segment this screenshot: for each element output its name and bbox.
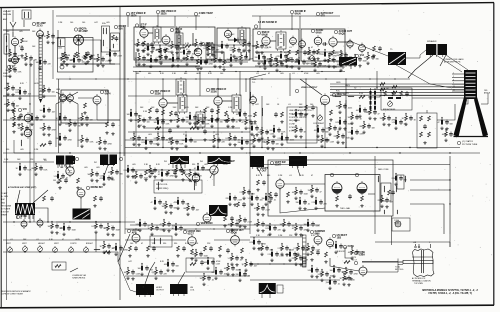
- svg-text:680: 680: [253, 46, 256, 48]
- ground: [176, 254, 179, 257]
- component cluster: [304, 219, 321, 232]
- coil L8 peaking: [245, 52, 248, 58]
- component cluster: [142, 137, 159, 150]
- damper tube V29: [310, 230, 325, 246]
- tube V33: [37, 218, 43, 228]
- bus wire: [252, 15, 340, 17]
- svg-text:4 POSITION UHF STRIP (OPT): 4 POSITION UHF STRIP (OPT): [8, 186, 37, 189]
- capacitor C78: [230, 216, 234, 221]
- vertical wire: [345, 79, 347, 147]
- ground: [316, 57, 319, 60]
- svg-text:6CS7: 6CS7: [223, 162, 230, 165]
- contrast pot R52: [313, 114, 325, 125]
- antenna terminal: [3, 18, 16, 32]
- component cluster: [16, 163, 33, 176]
- component cluster: [56, 133, 73, 146]
- svg-text:.0015: .0015: [314, 130, 319, 132]
- component cluster: [210, 135, 226, 148]
- resistor R44: [217, 109, 220, 114]
- volume pot R22: [306, 54, 315, 65]
- sound wire level: [255, 65, 343, 67]
- component cluster: [174, 197, 191, 210]
- svg-text:1.2M: 1.2M: [216, 264, 221, 266]
- component cluster: [135, 53, 151, 66]
- component cluster: [308, 265, 325, 278]
- ratio det diodes: [290, 36, 297, 47]
- wire: [261, 96, 263, 148]
- svg-text:VHF ANT: VHF ANT: [3, 10, 12, 13]
- leader line: [180, 164, 218, 182]
- model text: [422, 289, 478, 292]
- junction dots: [264, 65, 341, 66]
- note text left: [1, 290, 32, 296]
- transformer blob A: [56, 156, 73, 167]
- svg-text:COPR. BY JOHN F. RIDER: COPR. BY JOHN F. RIDER: [1, 294, 24, 296]
- horiz AFC tube V26: [127, 229, 140, 244]
- resistor R61: [392, 91, 395, 96]
- svg-text:150K: 150K: [380, 118, 385, 120]
- IF transformer T3: [206, 42, 214, 61]
- resistor R76: [167, 170, 170, 175]
- capacitor C64: [423, 124, 427, 129]
- yoke labels: [378, 169, 400, 225]
- svg-text:7: 7: [453, 83, 454, 85]
- svg-text:.0015: .0015: [442, 134, 447, 136]
- svg-text:FINE: FINE: [3, 73, 8, 75]
- horiz osc tube V27: [183, 230, 201, 247]
- svg-text:.005: .005: [84, 167, 88, 169]
- svg-text:PICTURE TUBE: PICTURE TUBE: [462, 144, 478, 146]
- resistor R54: [281, 112, 284, 117]
- svg-text:.047: .047: [144, 48, 148, 50]
- crt lead labels: [336, 82, 356, 95]
- component cluster: [248, 123, 263, 136]
- svg-text:470K: 470K: [170, 176, 175, 178]
- resistor R81: [269, 192, 272, 197]
- ground: [164, 56, 167, 59]
- ground: [161, 118, 164, 121]
- waveform photo W3: [170, 156, 189, 164]
- component cluster: [130, 133, 145, 146]
- 3rd video IF tube V18: [206, 88, 227, 107]
- svg-text:2.2M: 2.2M: [238, 200, 243, 202]
- svg-text:150K: 150K: [264, 142, 269, 144]
- component cluster: [356, 105, 372, 118]
- svg-text:1.2M: 1.2M: [94, 59, 99, 61]
- svg-text:.047: .047: [337, 64, 341, 66]
- component cluster: [144, 43, 160, 56]
- svg-text:W1: W1: [44, 160, 47, 162]
- ground: [224, 119, 227, 122]
- capacitor C28: [378, 46, 382, 51]
- svg-text:47: 47: [311, 175, 313, 177]
- tube V14: [93, 90, 111, 106]
- svg-text:1.2M: 1.2M: [392, 122, 397, 124]
- svg-text:10: 10: [453, 86, 455, 88]
- component cluster: [292, 125, 307, 138]
- wire: [80, 197, 82, 209]
- sound IF amp tube V9: [257, 31, 270, 47]
- junction dots: [257, 263, 296, 264]
- ground: [218, 254, 221, 257]
- switch box 1: [102, 22, 110, 52]
- svg-text:330: 330: [220, 122, 223, 124]
- svg-text:.0015: .0015: [348, 252, 353, 254]
- svg-text:.005: .005: [132, 176, 136, 178]
- svg-text:100: 100: [348, 117, 351, 119]
- svg-text:.047: .047: [364, 57, 368, 59]
- svg-text:330: 330: [22, 120, 25, 122]
- svg-text:330: 330: [184, 230, 187, 232]
- svg-text:2.2M: 2.2M: [124, 170, 129, 172]
- component cluster: [204, 257, 221, 270]
- svg-text:4.5 MC SOUND IF: 4.5 MC SOUND IF: [258, 21, 278, 24]
- component cluster: [268, 249, 285, 262]
- junction dots: [139, 71, 340, 72]
- component cluster: [136, 219, 150, 232]
- labels horiz: [128, 261, 221, 263]
- svg-text:330: 330: [163, 243, 166, 245]
- svg-text:.0015: .0015: [254, 208, 259, 210]
- svg-text:SPEAKER: SPEAKER: [427, 40, 437, 43]
- svg-text:(C) 21ATP4: (C) 21ATP4: [462, 140, 474, 143]
- svg-text:1.2M: 1.2M: [22, 58, 27, 60]
- resistor R78: [224, 216, 227, 221]
- ground: [268, 200, 271, 203]
- capacitor C1: [20, 46, 24, 51]
- capacitor C30: [19, 113, 23, 118]
- svg-text:B BOOST: B BOOST: [1, 212, 10, 214]
- vert section outline: [268, 160, 393, 216]
- svg-text:OSC: OSC: [13, 60, 18, 63]
- component cluster: [380, 113, 397, 126]
- CRT label: [457, 140, 478, 146]
- svg-text:680: 680: [136, 73, 139, 75]
- svg-text:CONTR: CONTR: [70, 243, 77, 245]
- svg-text:47: 47: [242, 122, 244, 124]
- lead label: [395, 266, 404, 271]
- vert tube shading: [332, 189, 367, 194]
- component cluster: [218, 41, 235, 54]
- capacitor C32: [48, 140, 52, 145]
- svg-text:OUTPUT: OUTPUT: [156, 290, 165, 292]
- svg-text:150K: 150K: [304, 194, 309, 196]
- notes text: [289, 109, 312, 132]
- component cluster: [36, 57, 52, 70]
- svg-text:1.2M: 1.2M: [330, 142, 335, 144]
- svg-text:.005: .005: [204, 164, 208, 166]
- bus wire: [125, 239, 186, 241]
- HV rect tube V30: [326, 234, 347, 249]
- ground: [360, 204, 363, 207]
- svg-text:OSC: OSC: [12, 67, 17, 70]
- label AGC: [138, 124, 143, 127]
- component cluster: [168, 137, 185, 150]
- yoke plug circle: [395, 221, 401, 227]
- svg-text:680: 680: [32, 168, 35, 170]
- component cluster: [186, 112, 203, 125]
- wire: [3, 239, 120, 241]
- ground: [287, 58, 290, 61]
- vertical wire: [249, 156, 251, 234]
- bus wire: [56, 15, 200, 17]
- svg-text:47: 47: [311, 47, 313, 49]
- capacitor C46: [168, 128, 172, 133]
- vertical wire: [305, 79, 307, 147]
- ground: [150, 50, 153, 53]
- component cluster: [254, 219, 271, 232]
- coil L31: [154, 238, 161, 244]
- CRT funnel right side: [474, 97, 488, 137]
- fuse label: [343, 245, 354, 249]
- focus line wire: [437, 104, 455, 120]
- component cluster: [70, 55, 85, 68]
- svg-text:2.2M: 2.2M: [278, 248, 283, 250]
- component cluster: [283, 55, 299, 68]
- halo audio: [316, 12, 334, 18]
- component cluster: [238, 137, 255, 150]
- component cluster: [250, 135, 266, 148]
- vertical bus wire2: [123, 27, 125, 156]
- wire: [368, 193, 375, 195]
- speaker label: [427, 40, 437, 43]
- component cluster: [402, 113, 417, 126]
- svg-text:150K: 150K: [224, 120, 229, 122]
- ground: [181, 178, 184, 181]
- capacitor C97: [200, 260, 204, 265]
- component cluster: [280, 219, 295, 232]
- yoke coil LV1: [384, 186, 397, 192]
- component cluster: [148, 223, 165, 236]
- svg-text:47: 47: [300, 47, 302, 49]
- video output label: [301, 87, 318, 89]
- svg-text:470K: 470K: [100, 178, 105, 180]
- component cluster: [138, 263, 154, 276]
- wire: [238, 40, 246, 52]
- AC line tube V31: [354, 261, 367, 277]
- svg-text:2.2M: 2.2M: [312, 202, 317, 204]
- component cluster: [168, 41, 183, 54]
- svg-text:AGC: AGC: [138, 124, 143, 127]
- component cluster: [270, 125, 287, 138]
- svg-text:100: 100: [52, 92, 55, 94]
- resistor R50: [359, 93, 365, 98]
- svg-text:.005: .005: [236, 220, 240, 222]
- CRT neck: [464, 70, 477, 99]
- svg-text:2CY5: 2CY5: [37, 24, 44, 27]
- svg-text:470K: 470K: [124, 250, 129, 252]
- svg-text:ANT: ANT: [3, 18, 8, 21]
- resistor R80: [257, 180, 260, 185]
- svg-text:330: 330: [376, 59, 379, 61]
- capacitor C54: [274, 112, 278, 117]
- svg-text:0.25A: 0.25A: [359, 253, 366, 256]
- ground: [295, 58, 298, 61]
- svg-text:.005: .005: [96, 167, 100, 169]
- svg-text:.0015: .0015: [258, 248, 263, 250]
- component cluster: [124, 267, 141, 280]
- sound IF label: [258, 21, 278, 24]
- svg-text:1.2M: 1.2M: [4, 159, 9, 161]
- svg-text:6: 6: [453, 79, 454, 81]
- diag fold wire: [118, 234, 130, 262]
- coil L21: [193, 182, 196, 190]
- ground: [12, 130, 15, 133]
- svg-text:4.7K: 4.7K: [185, 43, 190, 45]
- component cluster: [135, 115, 150, 128]
- peaking coil L17: [348, 95, 354, 98]
- capacitor C13: [204, 59, 208, 64]
- under-band wire: [133, 66, 345, 68]
- ground: [210, 117, 213, 120]
- video output tube V19: [320, 93, 346, 107]
- svg-text:47: 47: [6, 54, 8, 56]
- ground: [203, 116, 206, 119]
- svg-text:W4: W4: [200, 161, 203, 163]
- component cluster: [264, 137, 280, 150]
- svg-text:680: 680: [267, 175, 270, 177]
- component cluster: [318, 269, 335, 282]
- transformer blob B: [100, 155, 117, 167]
- component cluster: [4, 83, 21, 96]
- component cluster: [318, 135, 335, 148]
- svg-text:330: 330: [238, 142, 241, 144]
- svg-text:330: 330: [135, 120, 138, 122]
- resistor R11: [165, 48, 168, 53]
- component cluster: [154, 133, 169, 146]
- svg-text:.0015: .0015: [130, 138, 135, 140]
- component cluster: [204, 43, 220, 56]
- coil L18: [261, 108, 264, 116]
- wire: [410, 180, 450, 234]
- control pot P5: [69, 246, 74, 252]
- component cluster: [236, 269, 250, 282]
- capacitor C10: [150, 42, 154, 47]
- ground: [196, 67, 199, 70]
- svg-text:Y21T35, Y21K2-1, -2, -3 (CH. Y: Y21T35, Y21K2-1, -2, -3 (CH. YS-435, Y): [428, 292, 472, 295]
- component cluster: [112, 243, 129, 256]
- resistor R102: [344, 261, 350, 264]
- IF transformer T8: [238, 26, 246, 44]
- ground: [335, 204, 338, 207]
- CRT funnel left side: [454, 97, 468, 137]
- svg-text:.01: .01: [273, 64, 276, 66]
- component cluster: [194, 117, 211, 130]
- svg-text:L16: L16: [336, 93, 339, 95]
- B+ bus wire: [125, 147, 460, 149]
- svg-text:3.3K: 3.3K: [143, 111, 148, 113]
- component cluster: [174, 115, 190, 128]
- svg-text:2.2M: 2.2M: [305, 52, 310, 54]
- blob row leads: [58, 164, 185, 168]
- peaking coil L16: [335, 93, 341, 97]
- ground: [20, 54, 23, 57]
- wire: [410, 189, 450, 191]
- resistor R46: [155, 127, 161, 130]
- resistor R12: [185, 43, 191, 47]
- svg-text:HEIGHT: HEIGHT: [38, 243, 46, 245]
- AC lead wire: [352, 257, 398, 262]
- svg-text:1.2M: 1.2M: [316, 250, 321, 252]
- component cluster: [255, 52, 272, 65]
- svg-text:.0015: .0015: [168, 142, 173, 144]
- component cluster: [40, 85, 55, 98]
- component cluster: [212, 267, 228, 280]
- svg-text:.047: .047: [254, 224, 258, 226]
- tuner wires: [58, 30, 120, 64]
- resistor R5: [63, 52, 71, 57]
- svg-text:100: 100: [192, 254, 195, 256]
- svg-text:47: 47: [174, 120, 176, 122]
- capacitor C41: [174, 111, 178, 116]
- component cluster: [348, 112, 363, 125]
- tube V1B: [32, 22, 46, 40]
- svg-text:6AV6: 6AV6: [316, 31, 322, 34]
- svg-text:150K: 150K: [308, 190, 313, 192]
- vert output box: [325, 175, 380, 212]
- 1st IF amp tube V6: [135, 23, 148, 39]
- value labels row: [255, 104, 326, 106]
- svg-text:.047: .047: [10, 118, 14, 120]
- svg-text:2.2M: 2.2M: [294, 248, 299, 250]
- CRT pin labels: [453, 73, 455, 92]
- UHF tuner box: [56, 90, 108, 123]
- yoke blob upper: [0, 0, 1, 1]
- wire: [375, 242, 450, 247]
- resistor R47: [190, 127, 196, 130]
- horiz output transformer T20: [136, 284, 154, 297]
- svg-text:BRIGHT: BRIGHT: [86, 243, 94, 245]
- resistor R100: [311, 250, 314, 255]
- svg-text:680: 680: [212, 272, 215, 274]
- det video IF tube V17: [150, 90, 171, 109]
- long leader diagonal: [250, 156, 258, 162]
- svg-text:100: 100: [220, 73, 223, 75]
- value labels row: [132, 164, 208, 166]
- svg-text:100: 100: [48, 226, 51, 228]
- svg-text:BRIGHTNESS: BRIGHTNESS: [383, 109, 396, 111]
- wire: [345, 100, 347, 147]
- svg-text:1.2M: 1.2M: [34, 149, 39, 151]
- svg-text:2.2M: 2.2M: [278, 138, 283, 140]
- component cluster: [100, 173, 115, 186]
- resistor R62: [400, 91, 403, 96]
- junction dots: [69, 78, 395, 79]
- wire: [330, 258, 359, 271]
- wire: [60, 63, 115, 65]
- component cluster: [169, 54, 183, 67]
- component cluster: [294, 243, 311, 256]
- svg-text:330: 330: [186, 117, 189, 119]
- svg-text:VERT OSC: VERT OSC: [201, 222, 213, 225]
- component cluster: [321, 49, 338, 62]
- svg-text:680: 680: [148, 73, 151, 75]
- component cluster: [66, 119, 81, 132]
- ground: [190, 257, 193, 260]
- component cluster: [4, 99, 20, 112]
- component cluster: [236, 215, 253, 228]
- svg-text:TO ANT: TO ANT: [1, 192, 8, 195]
- capacitor C47: [203, 129, 207, 134]
- component cluster: [258, 243, 273, 256]
- sound takeoff label: [252, 79, 257, 84]
- control pot P4: [53, 246, 58, 252]
- svg-text:1.2M: 1.2M: [136, 274, 141, 276]
- svg-text:.005: .005: [19, 31, 23, 33]
- resistor R30: [8, 108, 15, 113]
- resistor R20: [284, 50, 290, 55]
- wire: [148, 32, 153, 34]
